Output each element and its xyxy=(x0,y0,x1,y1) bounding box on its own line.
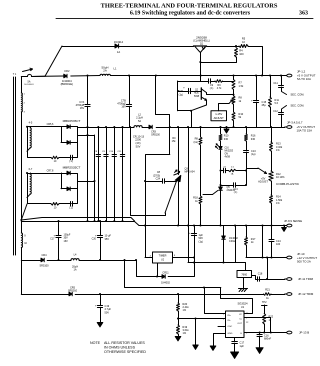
svg-text:7660: 7660 xyxy=(241,274,247,277)
wire gateC left xyxy=(221,185,234,187)
junction collector-divider xyxy=(233,94,235,96)
transformer T1 secondary winding 6-7 xyxy=(29,168,33,194)
wire winding to diodes 6-7 xyxy=(27,169,67,173)
svg-text:6-7: 6-7 xyxy=(29,168,33,171)
wire x156 vertical xyxy=(156,76,170,155)
note text xyxy=(90,341,146,354)
transistor Q2 xyxy=(194,88,207,101)
wire IC pin1 wire xyxy=(205,288,226,314)
junction bus3 x262.5 xyxy=(262,225,264,227)
resistor R8 xyxy=(232,96,242,105)
junction bus3 x178 xyxy=(177,225,179,227)
resistor R20 xyxy=(177,303,190,312)
bus3a rail xyxy=(21,221,134,223)
junction bus3 x188 xyxy=(187,225,189,227)
wire snubber left 6-7 xyxy=(28,173,52,204)
svg-text:TIMER: TIMER xyxy=(159,255,167,258)
wire hatch stub xyxy=(243,278,245,289)
svg-text:MBR2535CT: MBR2535CT xyxy=(63,165,81,169)
junction trim tap xyxy=(266,278,268,280)
svg-text:OTHERWISE SPECIFIED: OTHERWISE SPECIFIED xyxy=(104,350,146,354)
bus1 rail CR2 to L1 xyxy=(71,75,100,78)
wire C12 to bus2 xyxy=(281,114,283,127)
terminal JP-3..7 -5V output xyxy=(285,121,316,133)
svg-text:R21: R21 xyxy=(265,288,270,291)
wire snubber right 4-5 xyxy=(72,143,78,158)
capacitor C18 xyxy=(258,272,263,281)
svg-text:SEC. COM.: SEC. COM. xyxy=(291,103,305,107)
wire IC pin7 stub xyxy=(218,326,226,328)
wire R16 col lower xyxy=(246,168,248,185)
wire C15 column upper xyxy=(256,76,258,101)
svg-text:ADJUST: ADJUST xyxy=(214,116,225,120)
wire Q2 collector right xyxy=(207,93,234,95)
svg-text:SEC. COM.: SEC. COM. xyxy=(291,93,305,97)
svg-text:2200: 2200 xyxy=(135,138,141,142)
bus5b rail left xyxy=(21,294,69,296)
diode CR11 xyxy=(161,271,170,284)
svg-text:CR5,6: CR5,6 xyxy=(47,123,54,126)
svg-text:45µ: 45µ xyxy=(262,104,267,107)
wire C14 column upper xyxy=(271,226,273,240)
capacitor C6 xyxy=(69,202,73,210)
wire x188 to 263 xyxy=(188,226,190,263)
wire staircase to Q3 xyxy=(131,127,166,216)
svg-text:5038: 5038 xyxy=(194,96,200,98)
wire R8b column upper xyxy=(200,127,202,137)
wiper arrow R12 xyxy=(258,168,268,184)
wire C20 lower xyxy=(100,237,102,260)
svg-text:50V: 50V xyxy=(105,311,110,314)
svg-text:1A: 1A xyxy=(117,50,120,54)
wire C7A column lower xyxy=(87,106,89,221)
resistor R5 xyxy=(239,38,248,48)
svg-text:16V: 16V xyxy=(121,106,126,109)
junction C7A bus2 xyxy=(87,126,89,128)
wire Q1 to R4 top xyxy=(207,46,237,48)
svg-text:SLO-BLO: SLO-BLO xyxy=(24,84,34,86)
junction bus3 x200.5 xyxy=(200,225,202,227)
label SEC COM upper xyxy=(291,93,305,97)
junction gateC right xyxy=(245,184,247,186)
capacitor C20 xyxy=(92,234,112,241)
diode CR12 xyxy=(222,236,239,243)
junction bus5 end xyxy=(135,259,137,261)
capacitor C13 xyxy=(244,150,257,156)
svg-text:16V: 16V xyxy=(64,240,69,243)
junction C17 bottom xyxy=(58,259,60,261)
wire R9 to bias column xyxy=(223,81,234,83)
wire R8-R10 xyxy=(233,104,235,112)
resistor R4 xyxy=(235,48,245,58)
wire IC top loop xyxy=(221,288,253,314)
wire R11 column lower xyxy=(270,107,272,127)
resistor R19 xyxy=(177,325,190,335)
junction R18 top xyxy=(200,126,202,128)
diode CR5b xyxy=(68,287,78,296)
junction bus3a x94.5 xyxy=(94,220,96,222)
junction IC pin1 tap xyxy=(203,287,205,289)
svg-text:330: 330 xyxy=(251,138,256,141)
wire C11 stub xyxy=(281,76,283,86)
wire y154 jog left xyxy=(146,155,170,226)
svg-text:(1µ): (1µ) xyxy=(251,153,256,156)
wire Q1 emitter down xyxy=(200,52,202,76)
ground IC bottom xyxy=(231,352,239,358)
junction R4 top xyxy=(235,45,237,47)
svg-text:CR,10-13: CR,10-13 xyxy=(133,134,145,138)
wire snubber left 4-5 xyxy=(28,127,52,158)
bus1 rail L1 to output xyxy=(110,75,284,77)
junction winding top 6-7 xyxy=(26,172,28,174)
wire R4 bottom loop xyxy=(200,57,236,63)
junction C11 top xyxy=(280,75,282,77)
bus5b to JP12 xyxy=(271,294,285,296)
bus3 rail xyxy=(139,225,285,227)
svg-text:THREE-TERMINAL AND FOUR-TERMIN: THREE-TERMINAL AND FOUR-TERMINAL REGULAT… xyxy=(101,3,278,10)
terminal JP-8 sense xyxy=(284,219,302,227)
wire cathode join 4-5 xyxy=(70,127,77,143)
ground C19 xyxy=(97,323,103,327)
junction x188 top xyxy=(187,126,189,128)
wire gateC right xyxy=(236,185,247,187)
svg-text:(.1): (.1) xyxy=(234,192,238,194)
junction R16 top xyxy=(245,126,247,128)
svg-text:C17: C17 xyxy=(50,238,55,241)
svg-text:(4X): (4X) xyxy=(136,141,141,145)
resistor R7a xyxy=(51,203,59,210)
junction bus5 x124 xyxy=(124,259,126,261)
wire fuse to junction xyxy=(32,75,46,77)
wire node fan upper xyxy=(21,218,134,222)
svg-text:CR11: CR11 xyxy=(162,271,169,274)
junction R5 drop xyxy=(261,75,263,77)
capacitor C9 xyxy=(209,79,214,90)
svg-text:5.6: 5.6 xyxy=(275,102,279,105)
wire R13 top xyxy=(271,127,273,142)
transformer T1 tertiary winding xyxy=(21,233,27,247)
svg-text:2A: 2A xyxy=(103,69,107,73)
ground at bus2 xyxy=(224,127,229,133)
wire C8 right xyxy=(164,181,176,183)
wire C16 lower xyxy=(259,336,261,348)
svg-text:ADJUST: ADJUST xyxy=(258,181,268,184)
svg-text:C20: C20 xyxy=(92,238,97,241)
resistor R9 xyxy=(215,80,223,90)
wire tertiary to bus5 xyxy=(21,247,23,260)
junction bus3 x220.5 xyxy=(220,225,222,227)
bus1 rail segment xyxy=(45,75,64,77)
terminal JP-10 +12V output xyxy=(285,252,318,264)
wire cathode join 6-7 xyxy=(70,174,77,189)
svg-text:100: 100 xyxy=(276,243,281,246)
page header title xyxy=(101,3,278,10)
junction bus3a x98.3 xyxy=(97,220,99,222)
junction R10b top xyxy=(220,126,222,128)
capacitor C21 xyxy=(189,231,203,243)
IC U1 label xyxy=(237,302,248,309)
svg-text:(1µ): (1µ) xyxy=(179,93,184,96)
junction bus3 x271.5 xyxy=(271,225,273,227)
svg-text:SG3524: SG3524 xyxy=(237,302,248,306)
wire timer left pin xyxy=(145,257,153,259)
svg-text:JP-11 TRIM: JP-11 TRIM xyxy=(298,277,314,281)
transistor Q1 xyxy=(193,36,210,52)
wire SCR gate xyxy=(203,194,213,196)
transformer T1 core xyxy=(14,77,16,255)
resistor R21 xyxy=(264,288,272,300)
junction timer right pin xyxy=(193,257,195,259)
svg-text:10 10%: 10 10% xyxy=(276,176,285,179)
bus2 L2 to CR9 xyxy=(142,127,149,129)
svg-text:C12: C12 xyxy=(273,110,278,113)
wire diode bridge vertical 4-5 xyxy=(61,127,63,143)
wire C10 to Q2 base xyxy=(190,91,201,93)
wire C7B column upper xyxy=(129,76,131,105)
wire IC right pinB xyxy=(244,332,285,334)
wire C11 to sec com xyxy=(282,87,287,95)
diode CR5b xyxy=(67,141,70,145)
junction bus3 gnd xyxy=(283,225,285,227)
terminal JP-1,2 +5V output xyxy=(285,70,316,82)
wire R22 lower xyxy=(264,324,266,333)
wire CR11 right xyxy=(168,276,194,278)
wire R17 column xyxy=(246,226,248,238)
wire IC bottom pin xyxy=(234,338,236,342)
transformer T1 secondary winding 4-5 xyxy=(29,122,33,148)
svg-text:4.7k: 4.7k xyxy=(217,87,222,90)
resistor R13 xyxy=(270,142,283,152)
label SEC COM lower xyxy=(291,103,305,107)
pot wiper arrow xyxy=(229,100,232,103)
LED CR14 xyxy=(215,144,233,159)
wire R12-R14 xyxy=(271,181,273,195)
ground C16 xyxy=(256,348,263,354)
wire snubber mid 6-7 xyxy=(59,203,70,205)
junction bus3 x246 xyxy=(245,225,247,227)
capacitor C11 xyxy=(273,82,283,87)
wire C7A column upper xyxy=(87,76,89,105)
wire RC right xyxy=(236,170,246,172)
resistor R7 xyxy=(232,80,244,90)
capacitor C12 xyxy=(273,110,283,115)
wire C19 lower xyxy=(100,307,102,322)
inductor L2 xyxy=(134,113,143,127)
junction pinB x270 xyxy=(270,332,272,334)
wire R7-R8 xyxy=(233,90,235,96)
svg-text:CR4: CR4 xyxy=(41,254,47,257)
wire R16 top xyxy=(246,127,248,134)
capacitor C10 xyxy=(179,86,191,97)
svg-text:100: 100 xyxy=(239,52,244,56)
terminal JP-13 B+ xyxy=(285,331,310,335)
junction emitter row xyxy=(190,110,192,112)
svg-text:500 TO 2A: 500 TO 2A xyxy=(297,260,311,264)
capacitor C17 xyxy=(50,233,71,242)
diode CR5a xyxy=(63,119,81,128)
wire winding to diodes 4-5 xyxy=(27,123,67,126)
transformer T1 label xyxy=(13,73,17,76)
junction C8 tap xyxy=(144,180,146,182)
wire R20 upper xyxy=(178,294,180,303)
wire x94 vertical xyxy=(94,135,96,221)
wire gnd column x195 xyxy=(195,319,197,346)
junction bus3a x106 xyxy=(105,220,107,222)
svg-text:SR5100: SR5100 xyxy=(39,264,49,267)
junction winding top 4-5 xyxy=(26,126,28,128)
svg-text:JP-12 TRIM: JP-12 TRIM xyxy=(298,292,314,296)
wire x262 bus3-bus4 xyxy=(262,226,264,258)
wire IC right pinA xyxy=(244,318,271,333)
bus1 main +5V rail xyxy=(32,75,46,77)
junction cap bank 1 top xyxy=(97,126,99,128)
svg-text:4-5: 4-5 xyxy=(29,122,33,125)
resistor R16 xyxy=(245,134,257,141)
svg-text:GND: GND xyxy=(228,333,233,335)
junction bias bottom xyxy=(233,126,235,128)
junction tap gnd col xyxy=(195,318,197,320)
junction RC row tap xyxy=(220,170,222,172)
wire R14 bottom xyxy=(271,203,273,226)
junction bus4 trim xyxy=(266,257,268,259)
svg-text:(.1): (.1) xyxy=(210,87,214,90)
resistor R12 xyxy=(269,171,300,186)
wire top rail xyxy=(62,46,115,48)
junction staircase top xyxy=(129,126,131,128)
svg-text:C24: C24 xyxy=(156,178,161,181)
junction bus3a x122.5 xyxy=(122,220,124,222)
svg-text:35V: 35V xyxy=(105,238,110,241)
ground IC left xyxy=(210,346,216,350)
junction bus4 x271 xyxy=(271,257,273,259)
wire C18 to JP11 xyxy=(259,279,285,281)
chassis ground hatch xyxy=(239,289,248,292)
svg-text:(1µ): (1µ) xyxy=(199,240,204,243)
wire RC row left xyxy=(221,170,224,172)
wire C15 column lower xyxy=(256,102,258,127)
wire IC gnd pin xyxy=(214,334,226,347)
svg-text:1µF: 1µF xyxy=(240,345,245,348)
junction Q3 top xyxy=(177,126,179,128)
junction rectA C7A xyxy=(87,134,89,136)
svg-text:1A: 1A xyxy=(73,269,76,272)
svg-text:OUT: OUT xyxy=(237,323,242,325)
junction bus3a x58.5 xyxy=(58,220,60,222)
svg-text:330: 330 xyxy=(224,138,229,141)
diode CR2 xyxy=(61,69,73,86)
wire emitter row drop xyxy=(191,111,193,127)
wire emitter row xyxy=(178,110,191,112)
capacitor C8 xyxy=(153,171,164,183)
page header subtitle xyxy=(130,11,308,17)
wire top rail to R5 xyxy=(236,46,239,48)
capacitor C10 2200uF xyxy=(109,127,116,221)
junction R11 top xyxy=(269,75,271,77)
bus2 rail left xyxy=(78,127,135,129)
wire node to snubberB xyxy=(21,204,27,220)
svg-text:1.5k: 1.5k xyxy=(239,85,244,88)
terminal JP-11 trim xyxy=(285,277,314,281)
wire x188 vertical xyxy=(188,127,190,226)
junction x156 top xyxy=(155,75,157,77)
wire node down xyxy=(21,220,23,233)
svg-text:16V: 16V xyxy=(80,107,85,110)
svg-text:6.19 Switching regulators an: 6.19 Switching regulators and dc-dc conv… xyxy=(130,11,251,17)
svg-text:CR12: CR12 xyxy=(229,240,236,243)
junction bus1 x177 xyxy=(200,75,202,77)
bus5b rail mid xyxy=(75,294,263,296)
wire C14 lower xyxy=(271,242,273,258)
resistor R8b xyxy=(193,137,202,145)
junction C19 top xyxy=(99,293,101,295)
junction RC right xyxy=(245,170,247,172)
wire rectifier B output xyxy=(78,181,95,183)
junction C7B top xyxy=(128,75,130,77)
wire Q3 base diagonal xyxy=(165,181,177,213)
wire adjust box to wiper xyxy=(219,104,230,111)
wire C20 column upper xyxy=(100,221,102,236)
svg-text:MPS A04: MPS A04 xyxy=(185,171,196,174)
wire RC mid xyxy=(225,170,228,172)
svg-text:CR2: CR2 xyxy=(64,69,70,73)
wire R5 to right drop xyxy=(248,47,263,76)
capacitor C16 xyxy=(257,334,272,340)
wire R18 column upper xyxy=(200,145,202,196)
bus3a to bus3 jog xyxy=(134,221,139,226)
junction bus3 x235 xyxy=(234,225,236,227)
wire x178 to C10 xyxy=(178,91,188,93)
wire C12 to sec com xyxy=(282,106,287,113)
wire bus5 drop left xyxy=(125,260,221,288)
junction CR12 y263 xyxy=(223,262,225,264)
capacitor C8 2200uF xyxy=(94,127,100,221)
resistor R18 xyxy=(193,196,202,204)
wire C17 lower xyxy=(58,237,60,260)
svg-text:50V: 50V xyxy=(136,145,141,149)
junction timer bottom xyxy=(156,276,158,278)
wire pot to bus2 xyxy=(233,121,235,127)
capacitor C14 xyxy=(269,240,281,247)
capacitor C17b xyxy=(232,342,245,348)
diode CR9 xyxy=(149,125,161,136)
wire CR12 lower xyxy=(223,240,225,263)
svg-text:1-15V: 1-15V xyxy=(215,112,222,116)
svg-text:JP-13 B: JP-13 B xyxy=(299,331,309,335)
wire R13-R12 xyxy=(271,151,273,171)
junction pinB x264 xyxy=(263,332,265,334)
capacitor C15 xyxy=(251,98,267,107)
wire Q1 node to y81 xyxy=(200,76,202,82)
junction gateC tap xyxy=(220,184,222,186)
wire rectifier A output xyxy=(78,135,95,137)
wire CR11 branch xyxy=(137,260,162,277)
ground x195 xyxy=(193,345,198,349)
svg-text:ON: ON xyxy=(225,154,229,156)
bus5 L4 to right xyxy=(79,260,136,262)
testpoint TP2 xyxy=(262,301,268,314)
svg-text:MJE: MJE xyxy=(194,93,199,95)
wire snubber right 6-7 xyxy=(72,189,78,204)
potentiometer R10 xyxy=(232,112,244,121)
svg-text:5A: 5A xyxy=(28,80,31,83)
wire C13 to wiper xyxy=(247,152,259,169)
bus2 rail right xyxy=(156,127,285,129)
svg-text:1N4914: 1N4914 xyxy=(114,40,124,44)
wire R19 lower xyxy=(178,334,180,337)
inductor L4 xyxy=(71,253,79,271)
junction bus3 x145 xyxy=(144,225,146,227)
wire top rail left diagonal xyxy=(45,46,62,76)
